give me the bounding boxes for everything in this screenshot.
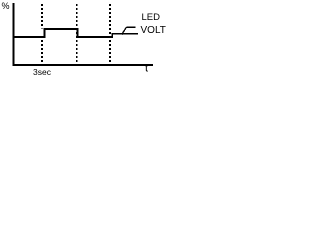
dotted divider 1 — [41, 4, 43, 29]
svg-text:3sec: 3sec — [33, 67, 52, 77]
x-axis — [12, 64, 153, 66]
svg-text:LED: LED — [142, 12, 161, 23]
LED voltage waveform — [13, 29, 138, 37]
dotted divider 2 — [76, 4, 78, 64]
y-axis — [12, 3, 14, 66]
svg-text:t: t — [145, 62, 148, 74]
leader line to LED VOLT label — [122, 27, 136, 34]
svg-text:%: % — [2, 1, 10, 11]
svg-text:VOLT: VOLT — [141, 25, 166, 36]
dotted divider 3 — [109, 4, 111, 64]
